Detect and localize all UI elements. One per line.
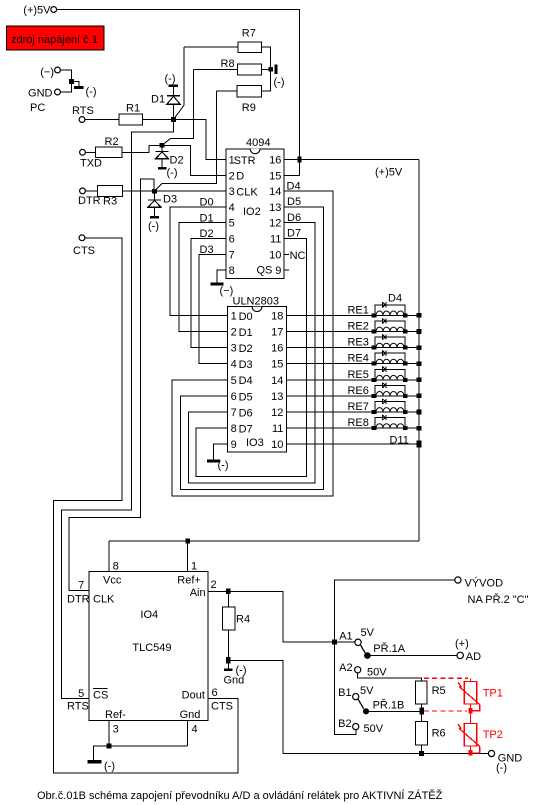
- label D6 at 4094: [287, 212, 301, 224]
- wire RTS node to 4094 pin1 STR: [174, 120, 226, 160]
- node TP2 bottom junction (red): [468, 750, 472, 755]
- wire RTS to R1: [85, 119, 119, 121]
- svg-text:R4: R4: [236, 614, 250, 626]
- resistor R1: [119, 103, 143, 125]
- diode D1: [151, 87, 180, 119]
- svg-text:D2: D2: [200, 228, 214, 240]
- wire TLC pin3 down: [108, 721, 110, 746]
- wire red dashed A2 row to TP1: [424, 678, 470, 681]
- resistor R6: [416, 722, 446, 746]
- wire RTS branch down to TLC549 CS: [62, 120, 174, 699]
- node pin3 junction: [106, 744, 111, 749]
- wire R4 gnd to bottom GND rail: [228, 660, 283, 753]
- terminal VYVOD: [455, 577, 529, 607]
- svg-text:R5: R5: [432, 685, 446, 697]
- wire TLC pin8 riser: [108, 541, 110, 572]
- svg-text:RE6: RE6: [347, 385, 368, 397]
- svg-text:(-): (-): [148, 221, 159, 233]
- svg-text:AD: AD: [466, 651, 481, 663]
- svg-text:7: 7: [231, 407, 237, 419]
- terminal (-) below D3: [148, 216, 159, 233]
- relay RE7 with flyback diode: [286, 399, 421, 415]
- node pin10 bus junction: [417, 441, 422, 448]
- svg-text:D1: D1: [151, 94, 165, 106]
- wire net D4 4094 pin14 to ULN pin5: [172, 191, 333, 496]
- ground (-) below TLC549: [87, 760, 115, 772]
- svg-text:RE2: RE2: [347, 321, 368, 333]
- IC IO2 inside label: [243, 206, 261, 218]
- svg-text:STR: STR: [234, 155, 256, 167]
- svg-text:D11: D11: [390, 434, 409, 446]
- relay RE4 with flyback diode: [286, 351, 421, 367]
- IC IO2 right pin numbers 16-9 and QS label: [257, 155, 282, 278]
- switch pole A2: [339, 662, 387, 679]
- wire bottom GND rail: [283, 753, 488, 755]
- svg-text:(−): (−): [40, 67, 54, 79]
- svg-text:Obr.č.01B schéma zapojení přev: Obr.č.01B schéma zapojení převodníku A/D…: [37, 789, 443, 802]
- svg-text:2: 2: [211, 579, 217, 591]
- terminal (-) of PC supply: [40, 67, 60, 79]
- wire +5V to TLC549 Vcc and Ref+: [109, 540, 419, 542]
- label D11 at relays: [390, 434, 409, 446]
- svg-text:D2: D2: [239, 343, 253, 355]
- relay RE8 with flyback diode: [286, 415, 421, 431]
- svg-text:(-): (-): [86, 86, 97, 98]
- resistor R2: [96, 136, 122, 158]
- IC IO2 4094 body: [226, 137, 284, 279]
- relay RE6 with flyback diode: [286, 383, 421, 399]
- svg-text:(-): (-): [496, 762, 507, 774]
- terminal CTS: [73, 235, 95, 257]
- svg-text:R7: R7: [242, 28, 256, 40]
- svg-text:10: 10: [271, 439, 283, 451]
- svg-text:13: 13: [269, 202, 281, 214]
- resistor R7: [238, 28, 261, 53]
- svg-text:IO3: IO3: [246, 437, 264, 449]
- svg-text:16: 16: [271, 343, 283, 355]
- wire R2 to D2 node (jog): [122, 145, 162, 152]
- svg-text:Gnd: Gnd: [180, 709, 201, 721]
- svg-text:(+)5V: (+)5V: [23, 5, 51, 17]
- svg-text:5V: 5V: [361, 627, 375, 639]
- svg-text:PC: PC: [30, 102, 45, 114]
- svg-text:CLK: CLK: [93, 593, 115, 605]
- resistor R3: [98, 186, 123, 208]
- svg-text:50V: 50V: [364, 723, 384, 735]
- IC IO4 inside labels: [132, 609, 171, 654]
- caption: [37, 789, 443, 802]
- svg-text:10: 10: [269, 249, 281, 261]
- svg-text:2: 2: [229, 170, 235, 182]
- svg-text:PŘ.1A: PŘ.1A: [373, 642, 405, 655]
- svg-text:3: 3: [113, 724, 119, 736]
- svg-text:5V: 5V: [360, 685, 374, 697]
- ground (-) PC: [72, 82, 97, 99]
- svg-text:9: 9: [231, 439, 237, 451]
- node RTS junction at D1: [171, 117, 176, 122]
- wire pin3-pin4 join to ground: [94, 746, 188, 761]
- node A1 junction: [332, 640, 337, 645]
- terminal RTS: [72, 105, 94, 122]
- wire R1 to node RTS2: [143, 119, 174, 121]
- svg-text:3: 3: [229, 186, 235, 198]
- IC IO4 pin 6 Dout labels: [182, 687, 233, 713]
- IC IO3 right pin numbers 18-10: [271, 310, 283, 451]
- wire TLC pin2 Ain to switch A: [208, 591, 355, 642]
- svg-text:5: 5: [231, 375, 237, 387]
- svg-text:D0: D0: [200, 197, 214, 209]
- node R7R8R9 common: [268, 67, 273, 72]
- svg-text:D4: D4: [287, 180, 301, 192]
- wire R7 left: [184, 46, 238, 48]
- terminal (-) above D1: [165, 73, 178, 87]
- terminal AD (+): [455, 638, 481, 663]
- label D3: [200, 244, 214, 256]
- label D4 at relays: [388, 292, 402, 304]
- svg-text:5: 5: [229, 218, 235, 230]
- wire D2 node to 4094 pin2 D: [162, 145, 226, 175]
- svg-text:R2: R2: [105, 136, 119, 148]
- svg-text:R1: R1: [126, 103, 140, 115]
- svg-text:11: 11: [272, 423, 283, 435]
- IC IO4 pin 7 CLK labels: [67, 580, 115, 606]
- wire VYVOD branch: [334, 580, 457, 735]
- svg-text:B1: B1: [338, 687, 351, 699]
- svg-text:RE5: RE5: [347, 369, 368, 381]
- terminal GND of PC supply: [28, 88, 60, 115]
- wire common B to R5R6 node: [369, 710, 420, 712]
- svg-text:IO2: IO2: [243, 206, 261, 218]
- wire net D5 4094 pin13 to ULN pin6: [181, 207, 324, 490]
- relay RE3 with flyback diode: [286, 334, 421, 350]
- wire TXD to R2: [85, 151, 95, 153]
- svg-text:15: 15: [269, 170, 281, 182]
- svg-text:NA PŘ.2 "C": NA PŘ.2 "C": [468, 593, 529, 606]
- wire DTR to R3: [85, 190, 97, 192]
- label D7 at 4094: [287, 228, 301, 240]
- terminal DTR: [78, 188, 101, 207]
- svg-text:Ref-: Ref-: [105, 709, 126, 721]
- svg-text:RE7: RE7: [347, 401, 368, 413]
- relay RE2 with flyback diode: [286, 318, 421, 334]
- svg-text:14: 14: [271, 375, 283, 387]
- svg-text:IO4: IO4: [140, 609, 158, 621]
- wire net D7 4094 pin11 to ULN pin8: [196, 239, 306, 477]
- node R4 gnd junction: [226, 657, 230, 663]
- svg-text:1: 1: [191, 560, 197, 572]
- wire R4 bottom to ground: [227, 630, 229, 668]
- terminal (-) below D2: [158, 167, 178, 179]
- node DTR junction at D3: [152, 189, 157, 194]
- svg-text:D3: D3: [163, 194, 177, 206]
- wire net D3 4094 pin7 to ULN pin4: [199, 254, 228, 363]
- svg-text:DTR: DTR: [67, 593, 90, 605]
- wire R3 to 4094 pin3 CLK: [122, 190, 225, 192]
- diode D2: [156, 145, 184, 167]
- wire net D2 4094 pin6 to ULN pin3: [191, 239, 228, 348]
- ground ULN pin9 (-): [207, 444, 229, 471]
- svg-text:RE3: RE3: [347, 337, 368, 349]
- wire +5V bus vertical: [418, 160, 420, 542]
- svg-text:12: 12: [269, 218, 281, 230]
- svg-text:2: 2: [231, 327, 237, 339]
- svg-text:18: 18: [271, 310, 283, 322]
- wire node to A1: [334, 641, 355, 643]
- ground (-) Gnd below R4: [224, 665, 247, 687]
- svg-text:(+)5V: (+)5V: [375, 167, 403, 179]
- wire R8 left: [194, 69, 238, 71]
- svg-text:D3: D3: [200, 244, 214, 256]
- wire Ain to R4: [227, 591, 229, 607]
- wire 4094 pin15 to +5V junction: [284, 160, 299, 176]
- svg-text:D6: D6: [287, 212, 301, 224]
- trimmer TP2: [458, 723, 503, 753]
- svg-text:(-): (-): [167, 167, 178, 179]
- label D0: [200, 197, 214, 209]
- svg-text:D4: D4: [239, 375, 253, 387]
- svg-text:RE8: RE8: [347, 417, 368, 429]
- terminal GND (-): [488, 750, 522, 774]
- wire (-) to GND PC junction: [60, 70, 71, 92]
- resistor R5: [416, 681, 446, 704]
- IC IO4 pin labels top: [103, 560, 201, 586]
- svg-text:8: 8: [231, 423, 237, 435]
- wire TLC pin1 riser: [187, 541, 189, 572]
- svg-text:Vcc: Vcc: [103, 575, 122, 587]
- svg-text:17: 17: [271, 327, 283, 339]
- resistor R8: [221, 58, 262, 75]
- svg-text:D7: D7: [239, 424, 253, 436]
- wire (+)5V top rail to 4094 pin16 junction: [57, 10, 300, 158]
- svg-text:B2: B2: [338, 718, 351, 730]
- svg-text:ULN2803: ULN2803: [233, 296, 279, 308]
- trimmer TP1: [458, 682, 503, 711]
- IC IO3 left pin numbers 1-9 with labels D0-D7: [231, 310, 253, 451]
- svg-text:CS: CS: [93, 689, 108, 701]
- node pin16 +5V junction: [298, 156, 302, 162]
- ground 4094 pin8 (-): [210, 270, 233, 297]
- svg-text:8: 8: [229, 265, 235, 277]
- svg-text:TP2: TP2: [483, 729, 503, 741]
- svg-text:NC: NC: [290, 250, 306, 262]
- svg-text:8: 8: [113, 560, 119, 572]
- wire net D6 4094 pin12 to ULN pin7: [189, 223, 315, 483]
- svg-text:13: 13: [271, 391, 283, 403]
- wire DTR branch down to TLC549 CLK: [69, 179, 154, 591]
- wire 4094 pin9 QS stub: [284, 269, 289, 271]
- node TXD junction at D2: [160, 143, 165, 148]
- svg-text:7: 7: [78, 580, 84, 592]
- svg-text:R8: R8: [221, 58, 235, 70]
- svg-text:Gnd: Gnd: [224, 674, 245, 686]
- svg-text:7: 7: [229, 249, 235, 261]
- svg-text:4094: 4094: [246, 137, 270, 149]
- node R5R6 junction: [420, 708, 424, 715]
- svg-text:CLK: CLK: [236, 187, 258, 199]
- svg-text:CTS: CTS: [73, 245, 95, 257]
- svg-text:3: 3: [231, 343, 237, 355]
- wire R9 left: [216, 90, 237, 92]
- svg-text:(-): (-): [218, 460, 229, 472]
- wire D2 node to R8 (diagonal and riser): [162, 70, 194, 146]
- IC IO4 TLC549 body: [89, 572, 208, 721]
- svg-text:14: 14: [269, 186, 281, 198]
- svg-text:15: 15: [271, 359, 283, 371]
- node R6 gnd junction: [419, 751, 424, 756]
- switch PR.1B pole B1: [338, 685, 374, 700]
- wire R6 to GND rail: [421, 745, 423, 753]
- label D4 at 4094: [287, 180, 301, 192]
- wire net D1 4094 pin5 to ULN pin2: [179, 223, 228, 332]
- IC IO4 bottom labels: [105, 709, 200, 736]
- wire common A to AD: [371, 655, 457, 657]
- svg-text:D1: D1: [200, 212, 214, 224]
- svg-text:4: 4: [229, 202, 235, 214]
- IC IO3 ULN2803 body: [228, 296, 287, 453]
- wire D3 node to R9 (diagonal and riser): [155, 91, 217, 191]
- wire R8 right: [262, 69, 271, 71]
- wire A2 to R5 top: [358, 673, 422, 681]
- terminal (-) right of R8: [274, 64, 285, 88]
- svg-text:(−): (−): [220, 285, 234, 297]
- svg-text:RE1: RE1: [347, 304, 368, 316]
- switch PR.1A lever and common: [360, 642, 405, 659]
- svg-text:R3: R3: [103, 196, 117, 208]
- diode D3: [148, 191, 177, 216]
- svg-text:CTS: CTS: [211, 701, 233, 713]
- svg-text:D2: D2: [170, 155, 184, 167]
- relay RE1 with flyback diode: [286, 302, 421, 318]
- power terminal (+)5V: [23, 5, 56, 17]
- svg-text:11: 11: [270, 234, 281, 246]
- wire net D0 4094 pin4 to ULN pin1: [170, 207, 228, 316]
- IC IO2 left pin numbers 1-8 and labels STR D CLK: [229, 155, 259, 278]
- svg-text:A1: A1: [339, 631, 352, 643]
- svg-text:6: 6: [229, 234, 235, 246]
- wire red dashed R5R6 node to TP node: [424, 710, 467, 712]
- svg-text:TLC549: TLC549: [132, 642, 171, 654]
- label zdroj napajeni c.1 (red box): [7, 26, 105, 50]
- svg-text:6: 6: [231, 391, 237, 403]
- terminal TXD: [80, 149, 102, 169]
- svg-text:6: 6: [212, 687, 218, 699]
- node TP1 wiper junction (red): [468, 708, 472, 713]
- svg-text:4: 4: [231, 359, 237, 371]
- label D2: [200, 228, 214, 240]
- switch pole B2: [338, 718, 384, 735]
- svg-text:R6: R6: [432, 728, 446, 740]
- svg-text:50V: 50V: [367, 667, 387, 679]
- IC IO4 pin 5 CS labels: [67, 688, 108, 712]
- node Ref+ junction: [185, 539, 190, 544]
- switch PR.1A pole A1: [339, 627, 374, 646]
- svg-text:D0: D0: [239, 311, 253, 323]
- svg-text:TP1: TP1: [483, 688, 503, 700]
- svg-text:RE4: RE4: [347, 353, 368, 365]
- IC IO3 inside label: [246, 437, 264, 449]
- svg-text:5: 5: [78, 688, 84, 700]
- svg-text:12: 12: [271, 407, 283, 419]
- svg-text:D6: D6: [239, 407, 253, 419]
- wire R9 right to (-) node: [262, 69, 271, 91]
- svg-text:D: D: [236, 171, 244, 183]
- wire R5 to R6: [421, 704, 423, 721]
- svg-text:Ain: Ain: [190, 587, 206, 599]
- wire 4094 pin16 to +5V bus: [284, 159, 419, 161]
- svg-text:(-): (-): [165, 73, 176, 85]
- svg-text:D7: D7: [287, 228, 301, 240]
- node GND PC junction: [69, 79, 74, 84]
- wire CTS to TLC549 Dout: [54, 238, 239, 773]
- svg-text:R9: R9: [242, 102, 256, 114]
- svg-text:(-): (-): [274, 77, 285, 89]
- label D5 at 4094: [287, 196, 301, 208]
- svg-text:D4: D4: [388, 292, 402, 304]
- svg-text:D5: D5: [287, 196, 301, 208]
- wire 4094 pin10 NC stub: [284, 250, 305, 262]
- wire ULN pin10 COM to +5V bus: [286, 443, 419, 445]
- wire RTS node to R7 (diagonal and riser): [174, 47, 185, 119]
- svg-text:4: 4: [192, 724, 198, 736]
- svg-text:D5: D5: [239, 391, 253, 403]
- relay RE5 with flyback diode: [286, 367, 421, 383]
- svg-text:PŘ.1B: PŘ.1B: [373, 699, 405, 712]
- svg-text:9: 9: [275, 265, 281, 277]
- label D1: [200, 212, 214, 224]
- svg-text:zdroj napájení č.1: zdroj napájení č.1: [11, 34, 98, 46]
- svg-text:(-): (-): [104, 761, 115, 773]
- IC IO4 pin 2 Ain labels: [190, 579, 217, 599]
- wire R7 right to (-) node: [262, 47, 271, 69]
- svg-text:16: 16: [269, 155, 281, 167]
- node Ain junction at R4: [226, 589, 230, 595]
- svg-text:D1: D1: [239, 327, 253, 339]
- switch PR.1B lever and common: [358, 699, 404, 715]
- resistor R4: [222, 607, 250, 630]
- resistor R9: [237, 86, 262, 114]
- label (+)5V right: [375, 167, 403, 179]
- wire TLC pin4 down: [187, 721, 189, 746]
- svg-text:Ref+: Ref+: [177, 575, 201, 587]
- svg-text:RTS: RTS: [67, 700, 89, 712]
- svg-text:D3: D3: [239, 359, 253, 371]
- svg-text:(+): (+): [455, 638, 469, 650]
- svg-text:GND: GND: [28, 88, 53, 100]
- svg-text:TXD: TXD: [80, 158, 102, 170]
- svg-text:VÝVOD: VÝVOD: [465, 577, 504, 590]
- svg-text:A2: A2: [339, 662, 352, 674]
- wire TP1 to TP2 (red): [469, 713, 471, 723]
- svg-text:QS: QS: [257, 265, 273, 277]
- svg-text:RTS: RTS: [72, 105, 94, 117]
- svg-text:1: 1: [231, 310, 237, 322]
- svg-text:Dout: Dout: [182, 689, 205, 701]
